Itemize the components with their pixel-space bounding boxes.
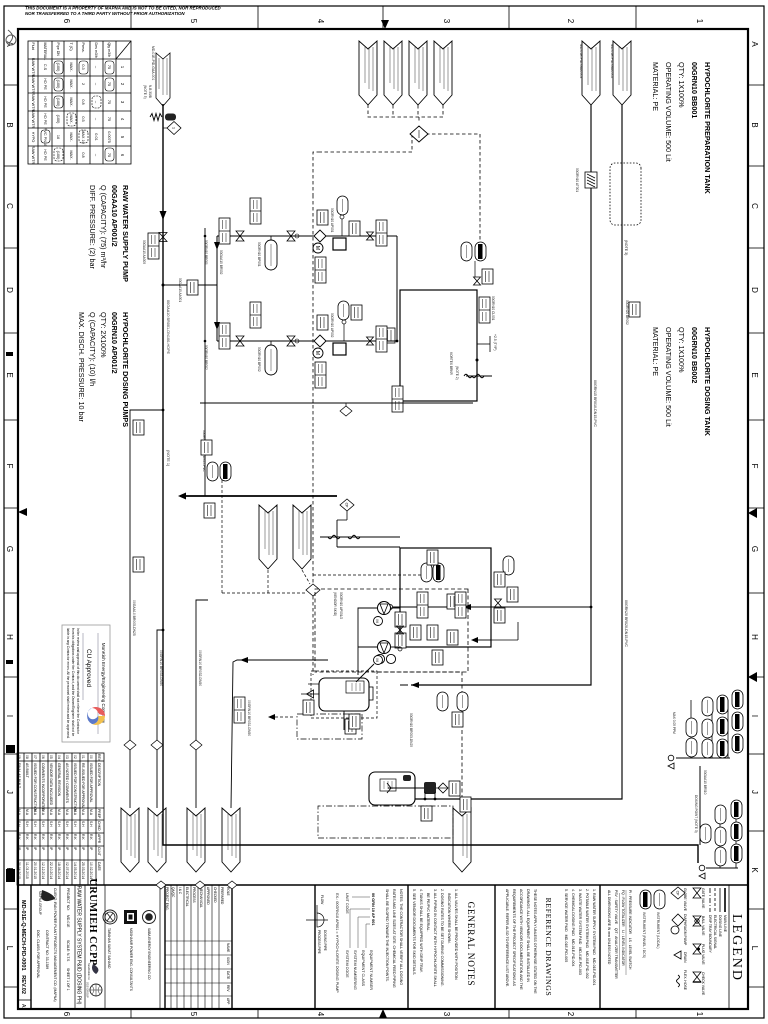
svg-text:MAX 10: MAX 10 bbox=[81, 130, 85, 144]
svg-text:22.10.2014: 22.10.2014 bbox=[49, 862, 53, 879]
elevation marker on tank A bbox=[477, 336, 490, 352]
svg-text:DOC. CLASS: FOR APPROVAL: DOC. CLASS: FOR APPROVAL bbox=[36, 930, 40, 978]
svg-text:M.A: M.A bbox=[73, 809, 77, 816]
svg-text:00GRN10 AP002: 00GRN10 AP002 bbox=[330, 313, 334, 338]
svg-text:RATES AND LINE SIZES AT SITE.: RATES AND LINE SIZES AT SITE. CHEMICAL F… bbox=[392, 889, 396, 988]
svg-text:75: 75 bbox=[107, 82, 111, 86]
svg-text:MAX 0.05 PPM: MAX 0.05 PPM bbox=[672, 712, 676, 734]
fill drop with flexible section into tank A bbox=[466, 375, 492, 377]
svg-text:DRIP TRAY BOUNDARY: DRIP TRAY BOUNDARY bbox=[708, 915, 712, 953]
svg-text:4. TANKS SHALL BE EQUIPPED WIT: 4. TANKS SHALL BE EQUIPPED WITH DRIP TRA… bbox=[419, 889, 423, 973]
right margin centering arrow bbox=[379, 1009, 387, 1018]
svg-text:11.03.2015: 11.03.2015 bbox=[25, 862, 29, 879]
svg-text:C: C bbox=[750, 203, 759, 209]
dashed taps from mid flags bbox=[222, 470, 310, 593]
svg-text:0.01: 0.01 bbox=[94, 133, 98, 140]
svg-text:1. RAW WATER SUPPLY SYSTEM P&I: 1. RAW WATER SUPPLY SYSTEM P&ID MD-01E-P… bbox=[592, 889, 596, 985]
instrument box on tank A top bbox=[479, 297, 490, 323]
svg-text:10.02.2014: 10.02.2014 bbox=[89, 862, 93, 879]
svg-text:URUMIEH CCPP: URUMIEH CCPP bbox=[87, 878, 98, 966]
dashed drain from tray to flag line bbox=[272, 716, 293, 718]
train top header to train B bbox=[396, 236, 398, 341]
inlet isolation valve and tag bbox=[159, 233, 167, 242]
svg-text:E: E bbox=[5, 372, 14, 377]
svg-text:30.04.2015: 30.04.2015 bbox=[17, 862, 21, 879]
rounded value bubbles + tiny values bbox=[41, 61, 114, 161]
legend instrument capsules bbox=[654, 890, 665, 909]
binding black marks bottom edge bbox=[6, 745, 15, 753]
svg-text:MOSHANIR POWER ENG. CONSULTANT: MOSHANIR POWER ENG. CONSULTANTS bbox=[129, 928, 133, 991]
svg-text:S.H: S.H bbox=[25, 821, 29, 827]
skid dashed boundary bbox=[315, 589, 468, 672]
svg-text:G: G bbox=[750, 546, 759, 552]
arrow into tank BB001 feed bbox=[411, 682, 419, 688]
sheet size band bbox=[18, 999, 31, 1001]
svg-text:(100): (100) bbox=[56, 151, 60, 161]
label box on P2 bbox=[629, 302, 640, 317]
svg-text:75: 75 bbox=[107, 117, 111, 121]
svg-text:75: 75 bbox=[107, 65, 111, 69]
notes continuation box bbox=[385, 889, 403, 988]
svg-text:QTY: 1X100%: QTY: 1X100% bbox=[677, 62, 686, 108]
svg-text:5. SEE VENDOR DOCUMENTS FOR SK: 5. SEE VENDOR DOCUMENTS FOR SKID DETAILS… bbox=[412, 889, 416, 975]
tags on basin bottom edge bbox=[395, 612, 406, 627]
svg-text:SCALE: N.T.S: SCALE: N.T.S bbox=[66, 940, 70, 962]
future dosing flags group (dashed streams) bbox=[434, 41, 452, 105]
svg-text:S.H: S.H bbox=[33, 821, 37, 827]
svg-text:QTY: 1X100%: QTY: 1X100% bbox=[677, 327, 686, 373]
zone column letters top bbox=[750, 41, 759, 950]
svg-text:In the review and approval of: In the review and approval of this docum… bbox=[76, 628, 80, 735]
svg-text:M: M bbox=[375, 658, 380, 661]
svg-text:PLUG VALVE: PLUG VALVE bbox=[701, 944, 705, 965]
svg-text:HD PE: HD PE bbox=[43, 113, 47, 125]
svg-text:liable in any Contractor error: liable in any Contractor errors. All the… bbox=[66, 628, 70, 738]
svg-text:CLNT: CLNT bbox=[97, 847, 101, 856]
svg-text:Q (CAPACITY): (10) l/h: Q (CAPACITY): (10) l/h bbox=[88, 312, 97, 386]
svg-text:1. ALL VALVES SHALL BE PROVIDE: 1. ALL VALVES SHALL BE PROVIDED WITH POS… bbox=[454, 889, 458, 980]
svg-text:20.01.2015: 20.01.2015 bbox=[33, 862, 37, 879]
svg-text:MATERIAL: PE: MATERIAL: PE bbox=[651, 327, 660, 376]
heavy drain sump line bbox=[184, 495, 337, 497]
flag: service water line bbox=[582, 41, 600, 105]
svg-text:00GRN10 BR031-DN50: 00GRN10 BR031-DN50 bbox=[247, 700, 251, 736]
svg-text:MAX.: MAX. bbox=[69, 97, 73, 106]
svg-text:B: B bbox=[750, 122, 759, 127]
svg-text:00GRN10 BR032-DN50: 00GRN10 BR032-DN50 bbox=[198, 650, 202, 686]
svg-text:M.A: M.A bbox=[57, 809, 61, 816]
svg-text:I: I bbox=[5, 715, 14, 717]
svg-text:1: 1 bbox=[695, 19, 704, 24]
svg-text:09: 09 bbox=[17, 755, 21, 759]
svg-text:HYPOCHLORITE DOSING PUMPS: HYPOCHLORITE DOSING PUMPS bbox=[121, 312, 130, 427]
svg-text:INSTRUMENT (LOCAL): INSTRUMENT (LOCAL) bbox=[656, 912, 660, 948]
svg-text:MAX.: MAX. bbox=[69, 114, 73, 123]
svg-text:Press.: Press. bbox=[81, 43, 85, 53]
svg-text:CP: CP bbox=[345, 503, 349, 508]
svg-text:MAX.: MAX. bbox=[69, 150, 73, 159]
svg-text:00GRN10 BB001: 00GRN10 BB001 bbox=[690, 62, 699, 118]
svg-text:R.K: R.K bbox=[33, 834, 37, 840]
svg-text:DIFF. PRESSURE: (2) bar: DIFF. PRESSURE: (2) bar bbox=[88, 185, 97, 269]
svg-text:MAX. DISCH. PRESSURE: 10 bar: MAX. DISCH. PRESSURE: 10 bar bbox=[77, 312, 86, 422]
dashed drain from tank BB001 area to flag (y306) bbox=[377, 672, 462, 808]
svg-text:00GRN10 BR033-DN50: 00GRN10 BR033-DN50 bbox=[159, 650, 163, 686]
svg-text:5. SERVICE WATER P&ID MD-01E: 5. SERVICE WATER P&ID MD-01E-PID-005 bbox=[564, 889, 568, 962]
svg-text:00GRN10 BB002: 00GRN10 BB002 bbox=[690, 327, 699, 383]
svg-text:PSV : SAFETY VALVE QIT : AN: PSV : SAFETY VALVE QIT : ANALYZER TRANSM… bbox=[614, 890, 618, 979]
svg-text:RAW WTR: RAW WTR bbox=[31, 58, 35, 77]
svg-text:SGS GROUP: SGS GROUP bbox=[86, 982, 90, 998]
svg-text:R.K: R.K bbox=[65, 834, 69, 840]
svg-text:MAX.: MAX. bbox=[69, 62, 73, 71]
branch from P1 into tank BB002 box bbox=[468, 606, 591, 608]
equipment note: raw water supply pump bbox=[88, 185, 130, 282]
svg-text:F: F bbox=[750, 464, 759, 469]
svg-text:NAME: NAME bbox=[226, 943, 230, 952]
svg-text:COMMENTS INCORPORATED: COMMENTS INCORPORATED bbox=[41, 763, 45, 811]
suction connection dots on P2 drop at tank top bbox=[434, 798, 437, 801]
svg-text:SHEET 1 OF 1: SHEET 1 OF 1 bbox=[66, 968, 70, 991]
svg-text:HYPO: HYPO bbox=[31, 132, 35, 143]
svg-text:D: D bbox=[5, 287, 14, 293]
svg-text:M: M bbox=[375, 619, 380, 622]
svg-text:0.3: 0.3 bbox=[81, 64, 85, 69]
svg-text:CHKD: CHKD bbox=[97, 821, 101, 831]
pipe: dosing line to point 2 (P2) bbox=[415, 105, 622, 799]
PI gauge stub left of train A bbox=[341, 219, 343, 236]
svg-text:Qty m3/h: Qty m3/h bbox=[107, 43, 111, 58]
svg-text:T (C): T (C) bbox=[69, 43, 73, 51]
svg-text:FINAL AS BUILT: FINAL AS BUILT bbox=[17, 763, 21, 788]
svg-text:6: 6 bbox=[62, 1012, 71, 1017]
svg-text:MECHANICAL: MECHANICAL bbox=[199, 887, 203, 908]
level instrument capsules inside basin bbox=[433, 563, 444, 582]
zone ticks left margin bbox=[131, 6, 636, 29]
svg-text:75: 75 bbox=[107, 100, 111, 104]
svg-text:UNIT CODE: UNIT CODE bbox=[345, 893, 349, 914]
zone row numbers left bbox=[62, 19, 704, 24]
svg-text:H: H bbox=[5, 634, 14, 640]
pipe: dosing line to point 1 (P1) bbox=[411, 105, 591, 685]
svg-text:INSTRUMENT (PANEL / DCS): INSTRUMENT (PANEL / DCS) bbox=[642, 912, 646, 958]
dosing pump P1 (circle) bbox=[378, 602, 391, 615]
svg-text:(100): (100) bbox=[56, 115, 60, 125]
svg-text:S.H: S.H bbox=[73, 821, 77, 827]
flag: drip tray drain to pit bbox=[222, 808, 240, 872]
svg-text:M.A: M.A bbox=[25, 809, 29, 816]
svg-text:CU Approved: CU Approved bbox=[85, 649, 92, 687]
svg-text:(100): (100) bbox=[56, 80, 60, 90]
svg-text:MD-01E-PID-GAA-001: MD-01E-PID-GAA-001 bbox=[151, 46, 155, 80]
svg-text:QA/QC: QA/QC bbox=[171, 887, 175, 898]
svg-text:1: 1 bbox=[695, 1012, 704, 1017]
svg-text:3. WASTE WATER SYSTEM P&ID M: 3. WASTE WATER SYSTEM P&ID MD-01E-PID-00… bbox=[578, 889, 582, 975]
svg-text:S.H: S.H bbox=[89, 821, 93, 827]
svg-text:APPLICABLE. REFER ALSO TO REFE: APPLICABLE. REFER ALSO TO REFERENCE LIST… bbox=[505, 889, 509, 987]
svg-text:L: L bbox=[750, 946, 759, 951]
small partner logo beside title bbox=[87, 963, 98, 980]
svg-text:00GAA10 BR010: 00GAA10 BR010 bbox=[703, 770, 707, 795]
agitator motor of BB001 bbox=[386, 654, 395, 663]
isolation valve to tank A bbox=[474, 277, 481, 285]
svg-text:14.05.2014: 14.05.2014 bbox=[73, 862, 77, 879]
svg-text:R.K: R.K bbox=[49, 834, 53, 840]
zone ticks bottom margin bbox=[4, 85, 18, 987]
svg-text:00GRN10 BR003-DN25: 00GRN10 BR003-DN25 bbox=[409, 713, 413, 747]
dosing pump P2 (circle) bbox=[378, 641, 391, 654]
svg-text:ISSUED FOR CONSTRUCTION: ISSUED FOR CONSTRUCTION bbox=[73, 763, 77, 813]
waste line to flag (y572) bbox=[196, 600, 208, 808]
legend line samples bbox=[710, 888, 725, 912]
svg-text:00GRN10 CL001: 00GRN10 CL001 bbox=[491, 296, 495, 321]
svg-text:VENDOR DATA INCLUDED: VENDOR DATA INCLUDED bbox=[49, 763, 53, 806]
svg-text:3: 3 bbox=[442, 19, 451, 24]
svg-text:SYSTEM NUMBERING: SYSTEM NUMBERING bbox=[353, 950, 357, 990]
mapna logo bbox=[38, 890, 55, 915]
svg-text:A1: A1 bbox=[20, 1004, 26, 1010]
line along tank A right side bbox=[200, 402, 473, 404]
zone row numbers right bbox=[62, 1012, 704, 1017]
svg-text:ISSUED FOR CONSTRUCTION: ISSUED FOR CONSTRUCTION bbox=[33, 763, 37, 813]
svg-text:4: 4 bbox=[316, 1012, 325, 1017]
svg-text:HD PE: HD PE bbox=[43, 149, 47, 161]
svg-text:S.H: S.H bbox=[57, 821, 61, 827]
svg-text:3: 3 bbox=[442, 1012, 451, 1017]
suction drops from basin to pumps bbox=[391, 607, 400, 609]
svg-text:2. DOSING RATES TO BE SET DURI: 2. DOSING RATES TO BE SET DURING COMMISS… bbox=[440, 889, 444, 987]
svg-text:SHALL BE SLOPED TOWARD THE INJ: SHALL BE SLOPED TOWARD THE INJECTION POI… bbox=[385, 889, 389, 982]
svg-text:CHECKED: CHECKED bbox=[213, 887, 217, 903]
svg-text:00GRN20 BR020-DN15-PVC: 00GRN20 BR020-DN15-PVC bbox=[624, 600, 628, 647]
svg-text:RAW WTR: RAW WTR bbox=[31, 75, 35, 94]
flag: drain (dashed) bbox=[453, 808, 471, 872]
svg-text:PROCESS PIPE: PROCESS PIPE bbox=[317, 930, 321, 954]
flag: to potable water main line bbox=[121, 808, 139, 872]
svg-text:(VENDOR SKID): (VENDOR SKID) bbox=[333, 592, 337, 616]
svg-text:MD-01E: MD-01E bbox=[66, 915, 70, 928]
svg-text:RAW WATER SUPPLY PUMP: RAW WATER SUPPLY PUMP bbox=[121, 185, 130, 282]
svg-text:00GRN10 AT001: 00GRN10 AT001 bbox=[575, 168, 579, 192]
svg-text:from his obligations under the: from his obligations under the Contract,… bbox=[71, 628, 75, 736]
svg-text:DRAWINGS. ALL EQUIPMENT SHALL: DRAWINGS. ALL EQUIPMENT SHALL BE INSTALL… bbox=[526, 889, 530, 982]
svg-text:EQUIPMENT NUMBER: EQUIPMENT NUMBER bbox=[369, 950, 373, 990]
svg-text:2. POTABLE WATER SYSTEM P&ID: 2. POTABLE WATER SYSTEM P&ID MD-01E-PID-… bbox=[585, 889, 589, 979]
svg-text:(100): (100) bbox=[56, 63, 60, 73]
centering arrow marks bbox=[381, 20, 389, 29]
svg-text:00GRN10 AP001: 00GRN10 AP001 bbox=[330, 208, 334, 233]
svg-text:R.K: R.K bbox=[41, 834, 45, 840]
svg-text:EQUIPMENT CLASS: EQUIPMENT CLASS bbox=[361, 950, 365, 986]
svg-text:ISSUED FOR APPROVAL: ISSUED FOR APPROVAL bbox=[89, 763, 93, 803]
svg-text:VORTEX BRKR: VORTEX BRKR bbox=[449, 352, 453, 375]
svg-text:PREP: PREP bbox=[97, 809, 101, 819]
spec diamond on signal line bbox=[306, 584, 320, 596]
svg-text:ALL DIMENSIONS ARE IN mm UNLES: ALL DIMENSIONS ARE IN mm UNLESS NOTED bbox=[607, 890, 611, 965]
svg-text:06: 06 bbox=[41, 755, 45, 759]
svg-text:C: C bbox=[5, 203, 14, 209]
svg-text:M.A: M.A bbox=[49, 809, 53, 816]
legend box bbox=[728, 885, 730, 1009]
svg-text:(NOTE 3): (NOTE 3) bbox=[624, 240, 628, 255]
svg-text:K: K bbox=[750, 867, 759, 873]
outlet from BB001 to trains area bbox=[343, 711, 345, 730]
drip tray of BB001 (chain line) bbox=[297, 714, 362, 739]
revision wedge marks on top frame bbox=[748, 508, 757, 518]
spec diamond stub bbox=[340, 406, 352, 416]
pulsation dampener on train A bbox=[270, 236, 272, 240]
dosing pump B bbox=[313, 335, 326, 358]
svg-text:REV: REV bbox=[226, 985, 230, 992]
svg-text:00GRN10 AP001/2: 00GRN10 AP001/2 bbox=[339, 592, 343, 619]
tray drain line to flag (y537) bbox=[231, 660, 328, 808]
drop from tank B bottom with flex hoses bbox=[320, 536, 400, 538]
agitator of BB002 bbox=[388, 787, 424, 789]
svg-text:REQUIREMENTS OF THE PROJECT SP: REQUIREMENTS OF THE PROJECT SPECIFICATIO… bbox=[512, 889, 516, 987]
capsule gauge above pump B bbox=[338, 301, 349, 320]
svg-text:00GRN10 BP001: 00GRN10 BP001 bbox=[257, 242, 261, 267]
svg-text:AS BUILT: AS BUILT bbox=[25, 763, 29, 778]
equipment note: hypochlorite dosing pumps bbox=[77, 312, 130, 427]
svg-text:00GAA10 AA005: 00GAA10 AA005 bbox=[142, 240, 146, 264]
svg-text:R.K: R.K bbox=[73, 834, 77, 840]
svg-text:DATE: DATE bbox=[226, 971, 230, 979]
svg-text:GENERAL NOTES: GENERAL NOTES bbox=[466, 902, 476, 987]
svg-text:MD-01E-Q-MECH-PID-0001 REV.0: MD-01E-Q-MECH-PID-0001 REV.02 bbox=[20, 900, 26, 994]
svg-text:(NOTE 1): (NOTE 1) bbox=[166, 450, 170, 467]
svg-text:FLOW: FLOW bbox=[320, 895, 324, 904]
svg-text:DOSING LINE: DOSING LINE bbox=[718, 915, 722, 938]
svg-text:J: J bbox=[750, 790, 759, 794]
train A fittings bottom to top bbox=[219, 218, 230, 244]
svg-text:01: 01 bbox=[81, 755, 85, 759]
svg-text:M.A: M.A bbox=[65, 809, 69, 816]
svg-text:05: 05 bbox=[49, 755, 53, 759]
svg-text:RE-ISSUED FOR APPROVAL: RE-ISSUED FOR APPROVAL bbox=[81, 763, 85, 808]
svg-text:GENERAL REVISION: GENERAL REVISION bbox=[57, 763, 61, 797]
inline hatched component on P1 bbox=[585, 172, 597, 188]
svg-text:RAW WTR: RAW WTR bbox=[31, 110, 35, 129]
svg-text:S.H: S.H bbox=[65, 821, 69, 827]
svg-text:N.B 30/B: N.B 30/B bbox=[148, 85, 152, 98]
instruments on feed line near skid bbox=[457, 692, 468, 711]
svg-text:+2.5 (TYP): +2.5 (TYP) bbox=[493, 334, 497, 351]
svg-text:E: E bbox=[750, 372, 759, 377]
svg-text:Des m3/h: Des m3/h bbox=[94, 43, 98, 58]
svg-text:Fluid: Fluid bbox=[31, 43, 35, 51]
svg-text:DOSING POINT (NOTE 3): DOSING POINT (NOTE 3) bbox=[694, 795, 698, 833]
svg-text:12.12.2014: 12.12.2014 bbox=[41, 862, 45, 879]
zone ticks right margin bbox=[131, 1009, 636, 1018]
svg-text:EX.: 00GRN10 AP001 = HYPOCHLOR: EX.: 00GRN10 AP001 = HYPOCHLORITE DOSING… bbox=[335, 893, 339, 993]
svg-text:MATERIAL: MATERIAL bbox=[43, 43, 47, 61]
svg-text:00 GRN 10 AP 001: 00 GRN 10 AP 001 bbox=[371, 893, 375, 926]
svg-text:PROCESS: PROCESS bbox=[192, 887, 196, 903]
svg-text:02: 02 bbox=[73, 755, 77, 759]
svg-text:00GAA10 BR005-DN25: 00GAA10 BR005-DN25 bbox=[132, 600, 136, 636]
svg-text:2: 2 bbox=[566, 1012, 575, 1017]
svg-text:REV: REV bbox=[97, 754, 101, 762]
svg-text:SIGN: SIGN bbox=[226, 957, 230, 965]
svg-text:4: 4 bbox=[316, 19, 325, 24]
svg-text:M.A: M.A bbox=[89, 809, 93, 816]
svg-text:00GAA10 BR002: 00GAA10 BR002 bbox=[219, 250, 223, 275]
tee to dosing pump suction bbox=[162, 284, 165, 287]
svg-text:BE PE/PVC MATERIAL.: BE PE/PVC MATERIAL. bbox=[426, 889, 430, 932]
svg-text:02.07.2014: 02.07.2014 bbox=[65, 862, 69, 879]
svg-text:75: 75 bbox=[107, 153, 111, 157]
svg-text:5: 5 bbox=[189, 1012, 198, 1017]
discharge header to tank BB001 bbox=[358, 608, 377, 675]
label boxes near tee bbox=[187, 280, 198, 295]
svg-text:6: 6 bbox=[62, 19, 71, 24]
drip tray boundary around BB002 (chain) bbox=[318, 806, 453, 838]
svg-text:THIS DOCUMENT IS A PROPERTY OF: THIS DOCUMENT IS A PROPERTY OF MAPNA AND… bbox=[25, 6, 222, 11]
svg-text:B: B bbox=[5, 122, 14, 127]
svg-text:00GAA10 AP001/2: 00GAA10 AP001/2 bbox=[110, 185, 119, 247]
svg-text:2: 2 bbox=[81, 83, 85, 85]
svg-text:3. ALL PIPING IN CONTACT WITH: 3. ALL PIPING IN CONTACT WITH HYPOCHLORI… bbox=[433, 889, 437, 987]
hose connection symbol on inlet bbox=[150, 114, 162, 121]
svg-text:0.5: 0.5 bbox=[81, 116, 85, 121]
svg-text:S.H: S.H bbox=[49, 821, 53, 827]
svg-text:03: 03 bbox=[65, 755, 69, 759]
level instrument capsules beside tank A bbox=[475, 242, 486, 261]
spec break diamond hung above supply line bbox=[163, 127, 169, 129]
svg-text:00GRN10 AP001/2: 00GRN10 AP001/2 bbox=[110, 312, 119, 374]
svg-text:THESE NOTES APPLY UNLESS OTHER: THESE NOTES APPLY UNLESS OTHERWISE STATE… bbox=[533, 889, 537, 994]
svg-text:F: F bbox=[5, 464, 14, 469]
svg-text:NOTES: THE CONTRACTOR SHALL VE: NOTES: THE CONTRACTOR SHALL VERIFY ALL D… bbox=[399, 889, 403, 985]
svg-text:2: 2 bbox=[566, 19, 575, 24]
svg-text:AS NOTED / COMMENTS: AS NOTED / COMMENTS bbox=[65, 763, 69, 804]
svg-text:M.A: M.A bbox=[17, 809, 21, 816]
suction header arrows bbox=[214, 242, 220, 250]
svg-text:HD PE: HD PE bbox=[43, 96, 47, 108]
zone column letters bottom bbox=[5, 41, 14, 950]
svg-text:CHECK VALVE: CHECK VALVE bbox=[701, 972, 705, 996]
svg-text:18.08.2014: 18.08.2014 bbox=[57, 862, 61, 879]
svg-text:R.K: R.K bbox=[81, 834, 85, 840]
svg-text:INDICATION WHERE SHOWN.: INDICATION WHERE SHOWN. bbox=[447, 889, 451, 944]
legend valve symbols row bbox=[683, 888, 705, 996]
svg-text:CLIENT: IRAN POWER PLANT PROJE: CLIENT: IRAN POWER PLANT PROJECTS MANAGE… bbox=[53, 888, 57, 1002]
svg-text:08: 08 bbox=[25, 755, 29, 759]
svg-text:04: 04 bbox=[57, 755, 61, 759]
partner logos bbox=[143, 911, 156, 924]
svg-text:00: 00 bbox=[89, 755, 93, 759]
svg-text:ELECTRICAL SIGNAL: ELECTRICAL SIGNAL bbox=[713, 915, 717, 949]
svg-text:FLEX. HOSE: FLEX. HOSE bbox=[683, 970, 687, 991]
svg-text:LEGEND: LEGEND bbox=[729, 914, 744, 982]
punch hole mark bottom-left bbox=[6, 35, 16, 45]
svg-text:PROJECT ENG.: PROJECT ENG. bbox=[165, 887, 169, 911]
svg-text:CONTRACT NO: 33-1389: CONTRACT NO: 33-1389 bbox=[45, 930, 49, 969]
svg-text:TARAHAN SANAT SAHAND: TARAHAN SANAT SAHAND bbox=[107, 928, 111, 969]
svg-text:APPR: APPR bbox=[97, 834, 101, 844]
svg-text:MAIN LINE: MAIN LINE bbox=[723, 915, 727, 933]
CP diamond bbox=[340, 499, 354, 511]
svg-text:APPROVED: APPROVED bbox=[206, 887, 210, 905]
svg-text:M.A: M.A bbox=[41, 809, 45, 816]
svg-text:ELECTRICAL: ELECTRICAL bbox=[185, 887, 189, 907]
svg-text:(100): (100) bbox=[56, 98, 60, 108]
svg-text:07: 07 bbox=[33, 755, 37, 759]
svg-text:Q (CAPACITY): (75) m³/hr: Q (CAPACITY): (75) m³/hr bbox=[99, 185, 108, 269]
title block strip right side bbox=[18, 885, 748, 1009]
svg-text:1: 1 bbox=[172, 127, 176, 129]
svg-text:MD-01E-PID-GAA-002: MD-01E-PID-GAA-002 bbox=[610, 44, 614, 78]
